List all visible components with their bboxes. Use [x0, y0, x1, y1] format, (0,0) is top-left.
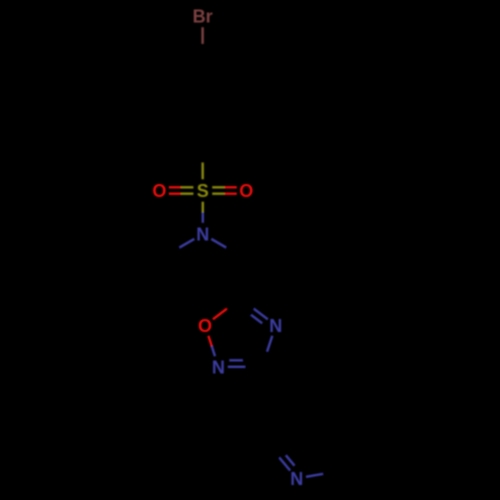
bond C3=N2 oxadiazole inner line	[229, 359, 256, 361]
bond N-CH3 methyl	[165, 239, 194, 256]
bond S=O left upper line	[169, 186, 194, 188]
bond C5-O1 oxadiazole	[213, 299, 240, 320]
bond C2'=N1' pyridine	[269, 445, 290, 471]
svg-text:O: O	[239, 181, 253, 201]
bond S=O right upper line	[212, 192, 237, 194]
svg-text:N: N	[212, 357, 225, 377]
svg-text:N: N	[196, 225, 209, 245]
bond C5=N4 oxadiazole	[240, 299, 267, 320]
bond Br-C4 (aryl bromide)	[201, 27, 203, 59]
svg-text:O: O	[198, 316, 212, 336]
bond N1'-C6' pyridine	[306, 471, 340, 477]
bond S=O right lower line	[212, 186, 237, 188]
bond S-N sulfonamide	[202, 202, 204, 223]
bond C5=N4 oxadiazole inner line	[240, 307, 262, 324]
bond N-CH2	[211, 239, 240, 256]
svg-text:S: S	[197, 181, 209, 201]
bond N4-C3 oxadiazole	[262, 336, 272, 367]
bond C1-S (sulfonyl)	[201, 147, 203, 180]
svg-text:O: O	[152, 181, 166, 201]
svg-text:N: N	[269, 316, 282, 336]
svg-text:Br: Br	[193, 7, 213, 27]
bond N2-O1 oxadiazole	[208, 336, 215, 357]
svg-text:N: N	[290, 469, 303, 489]
bond S=O left lower line	[169, 192, 194, 194]
bond C3=N2 oxadiazole	[228, 366, 262, 368]
bond C2'=N1' pyridine inner line	[278, 445, 295, 465]
